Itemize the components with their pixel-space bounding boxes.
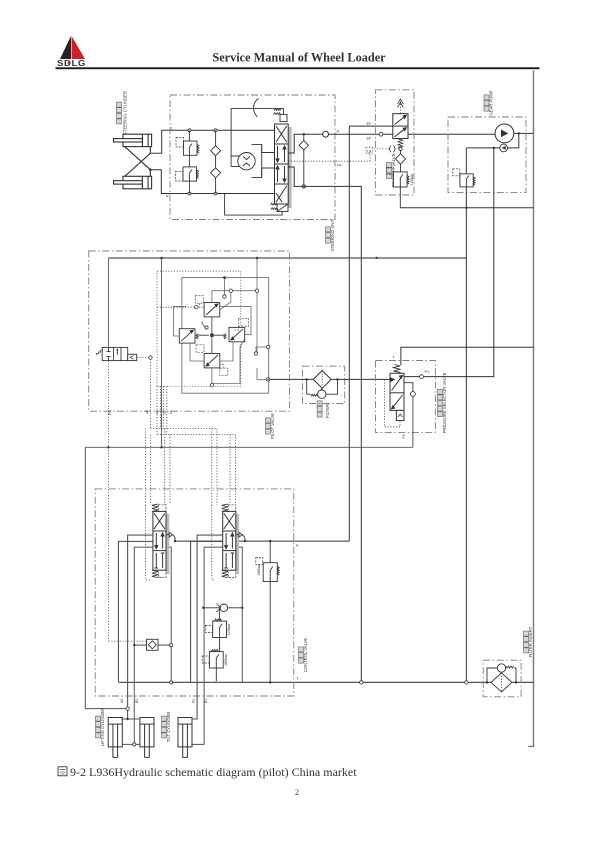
orifice [390,146,396,153]
spool 1 load check [166,532,175,541]
svg-text:A1: A1 [192,699,196,703]
svg-text:PG: PG [108,410,112,415]
pilot supply valve [95,347,136,360]
wire selector T out [401,347,534,365]
svg-text:b1: b1 [169,410,173,414]
wire steering valve bottom drain [225,194,283,216]
wire pilot drops dotted [146,386,236,580]
steering spool top box [274,109,288,122]
pressure selector port P2 [404,383,415,397]
svg-text:GEAR PUMP: GEAR PUMP [489,90,494,115]
wire T collector [400,207,533,209]
pilot dashed pilots [195,296,248,376]
node bottom tank [360,681,469,684]
svg-text:b2: b2 [155,410,159,414]
control valve box [95,489,294,696]
filter insert box [483,660,521,697]
gear pump label [484,90,494,115]
filter insert element [491,673,512,692]
relief valve 160bar [256,541,279,684]
lifting cylinder label [96,708,106,746]
svg-text:CONTROL VALVE: CONTROL VALVE [303,638,308,673]
spool 1 springs [152,504,166,578]
svg-text:SDLG: SDLG [57,58,86,68]
wire tank vertical left [465,148,467,683]
spool 1 shade [166,514,169,574]
wire LS dotted steering [288,151,370,162]
relief valve SU2 [176,167,199,181]
wire check pilot dotted [109,640,147,642]
node supply out [149,356,152,359]
port circle CF [379,132,383,136]
svg-text:T: T [393,356,396,360]
wire lifting rod side [122,743,140,746]
relief valve 180bar [202,649,223,681]
svg-text:L: L [171,127,173,131]
lifting cylinder 2 [140,718,154,758]
wire gerotor left links [231,109,283,167]
svg-text:P: P [296,544,299,548]
wire cylinder cross [125,147,151,177]
relief valve 140bar [387,167,410,208]
node priority LS [399,147,402,150]
wire T down from node161 [85,258,161,447]
wire check column [215,130,217,193]
pressure selector spring [394,364,401,372]
check valve priority [396,151,406,172]
steering unit box [170,95,335,220]
svg-text:B2: B2 [135,699,139,703]
priority pilot top [398,99,404,114]
filter bypass [306,378,339,398]
steering spool bottom box [271,203,289,211]
svg-text:P1: P1 [425,370,430,374]
check valve right section [202,604,243,613]
steering spool valve [275,124,289,204]
pilot pump [500,144,508,152]
gerotor motor [238,153,255,170]
wire return T horizontal [109,257,467,259]
check valve SU2 [211,168,221,178]
wire relief column [188,130,190,193]
filter label [317,401,330,418]
spool 2 shade [236,514,239,574]
steering cylinder label [117,91,128,135]
svg-text:PILOT VALVE: PILOT VALVE [270,413,275,439]
steering cylinder 2 [114,176,152,189]
wire supply valve outputs dotted [109,358,151,642]
wire tank vertical right [528,71,533,747]
wire lifting tops [121,718,140,720]
wire section1 outer [118,541,152,682]
wire P steering to pump [288,134,495,153]
svg-text:A2: A2 [120,699,124,703]
svg-text:Service Manual of Wheel Loader: Service Manual of Wheel Loader [212,51,386,65]
wire LS dotted priority [372,148,399,150]
priority valve label [387,153,397,187]
wire gerotor right bracket [252,144,275,177]
pilot valve unit bottom [204,354,220,368]
svg-text:9-2 L936Hydraulic schematic di: 9-2 L936Hydraulic schematic diagram (pil… [70,765,357,779]
wire spool2 A1 [192,535,223,719]
pilot center cross [196,317,226,354]
pressure selector valve [390,373,404,420]
wire T down to supply valve [108,258,110,347]
wire spool1 A2 [128,535,153,707]
pilot valve unit left [179,329,195,343]
spool 1 body [153,511,166,570]
steering unit label [326,218,336,251]
wire bottom tank line [119,681,534,683]
node PG cross [107,446,109,448]
SDLG logo [57,36,86,68]
wire cylinder2 R line [149,168,275,193]
steering cylinder 1 [114,134,152,146]
port circle P gauge [323,131,329,137]
svg-text:2: 2 [295,788,299,797]
node T258 [160,257,377,260]
svg-text:a1: a1 [163,410,167,414]
wire pilot pump out [466,147,499,149]
svg-text:EF: EF [367,122,373,126]
wire P2 down [412,396,414,447]
label A2 B2 A1 B1 [120,699,208,703]
relief valve 120bar [206,608,227,652]
wire pilot LS dotted [157,306,195,308]
wire T steering out [288,167,362,683]
spool 2 load check [236,532,245,541]
label L R ports [166,127,173,199]
svg-text:B1: B1 [204,699,208,703]
svg-text:EF: EF [367,137,373,141]
svg-text:L4: L4 [367,149,371,153]
wire EF line [349,126,393,541]
svg-text:Ls: Ls [337,162,341,167]
filter element [313,371,331,389]
svg-text:FILTER INSERT: FILTER INSERT [528,626,533,657]
svg-text:140bar: 140bar [410,173,414,186]
label ports [145,410,173,414]
control valve label [299,638,309,673]
feedback squiggle [253,99,258,118]
filter insert label [524,626,534,657]
pressure selector pilot dotted [384,380,400,427]
svg-text:180bar: 180bar [224,653,228,666]
gear pump box [448,117,526,192]
wire cylinder1 L line [150,130,274,153]
svg-text:T: T [296,677,299,681]
pilot valve unit top [204,303,220,317]
check valve P-T [299,133,308,188]
spool 2 body [223,511,236,570]
wire section2 T return [236,547,243,682]
svg-text:P: P [337,129,340,134]
steering spool shade [288,127,291,208]
wire spool2 B1 [192,547,223,744]
pilot cluster wires [174,258,269,384]
pressure selector label [438,372,448,433]
priority spring bottom [398,139,403,147]
wire control P gallery [174,540,349,542]
pilot cluster nodes [195,289,270,387]
svg-text:120bar: 120bar [227,623,231,636]
wire spool1 B2 [134,547,153,742]
filter insert bypass [486,664,517,684]
svg-text:STEERING UNIT: STEERING UNIT [330,218,335,251]
pressure selector box [376,361,436,433]
pilot valve box [89,251,290,411]
svg-text:160bar: 160bar [257,563,261,576]
wire P1 pilot feed [404,148,494,379]
pilot solid frame [182,278,269,394]
pilot valve label [266,413,276,439]
lifting cylinder 1 [108,718,122,758]
wire pump out right [508,132,534,148]
header rule [56,67,540,69]
check block left section [133,639,173,650]
svg-text:FILTER: FILTER [325,404,330,418]
svg-text:STEERING CYLINDER: STEERING CYLINDER [123,91,128,135]
svg-text:PRESSURE SELECTOR VALVE: PRESSURE SELECTOR VALVE [442,372,447,433]
svg-text:a2: a2 [145,410,149,414]
svg-text:R: R [166,195,169,199]
wire left drain [85,447,129,710]
pilot valve unit right [229,327,245,341]
svg-text:TILT CYLINDER: TILT CYLINDER [166,712,171,743]
wire pilot feed line [266,378,390,382]
priority valve body [393,114,408,139]
relief valve pump box [453,169,475,187]
wire section2 outer [191,541,223,682]
tilt cylinder [178,718,192,758]
caption [58,767,67,776]
gear pump main [495,124,514,143]
pilot dotted frame [157,271,241,386]
filter box [303,366,345,403]
label L4 box [366,147,372,153]
svg-text:LIFTING CYLINDER: LIFTING CYLINDER [100,708,105,746]
wire section1 T return [166,547,173,684]
priority valve box [375,90,414,195]
node solid frame top [223,276,226,279]
node L ports [188,129,217,195]
tilt cylinder label [162,712,172,743]
spool 2 springs [222,504,236,578]
check valve SU1 [211,146,221,156]
relief valve SU1 [176,138,199,156]
svg-text:P2: P2 [402,434,406,439]
